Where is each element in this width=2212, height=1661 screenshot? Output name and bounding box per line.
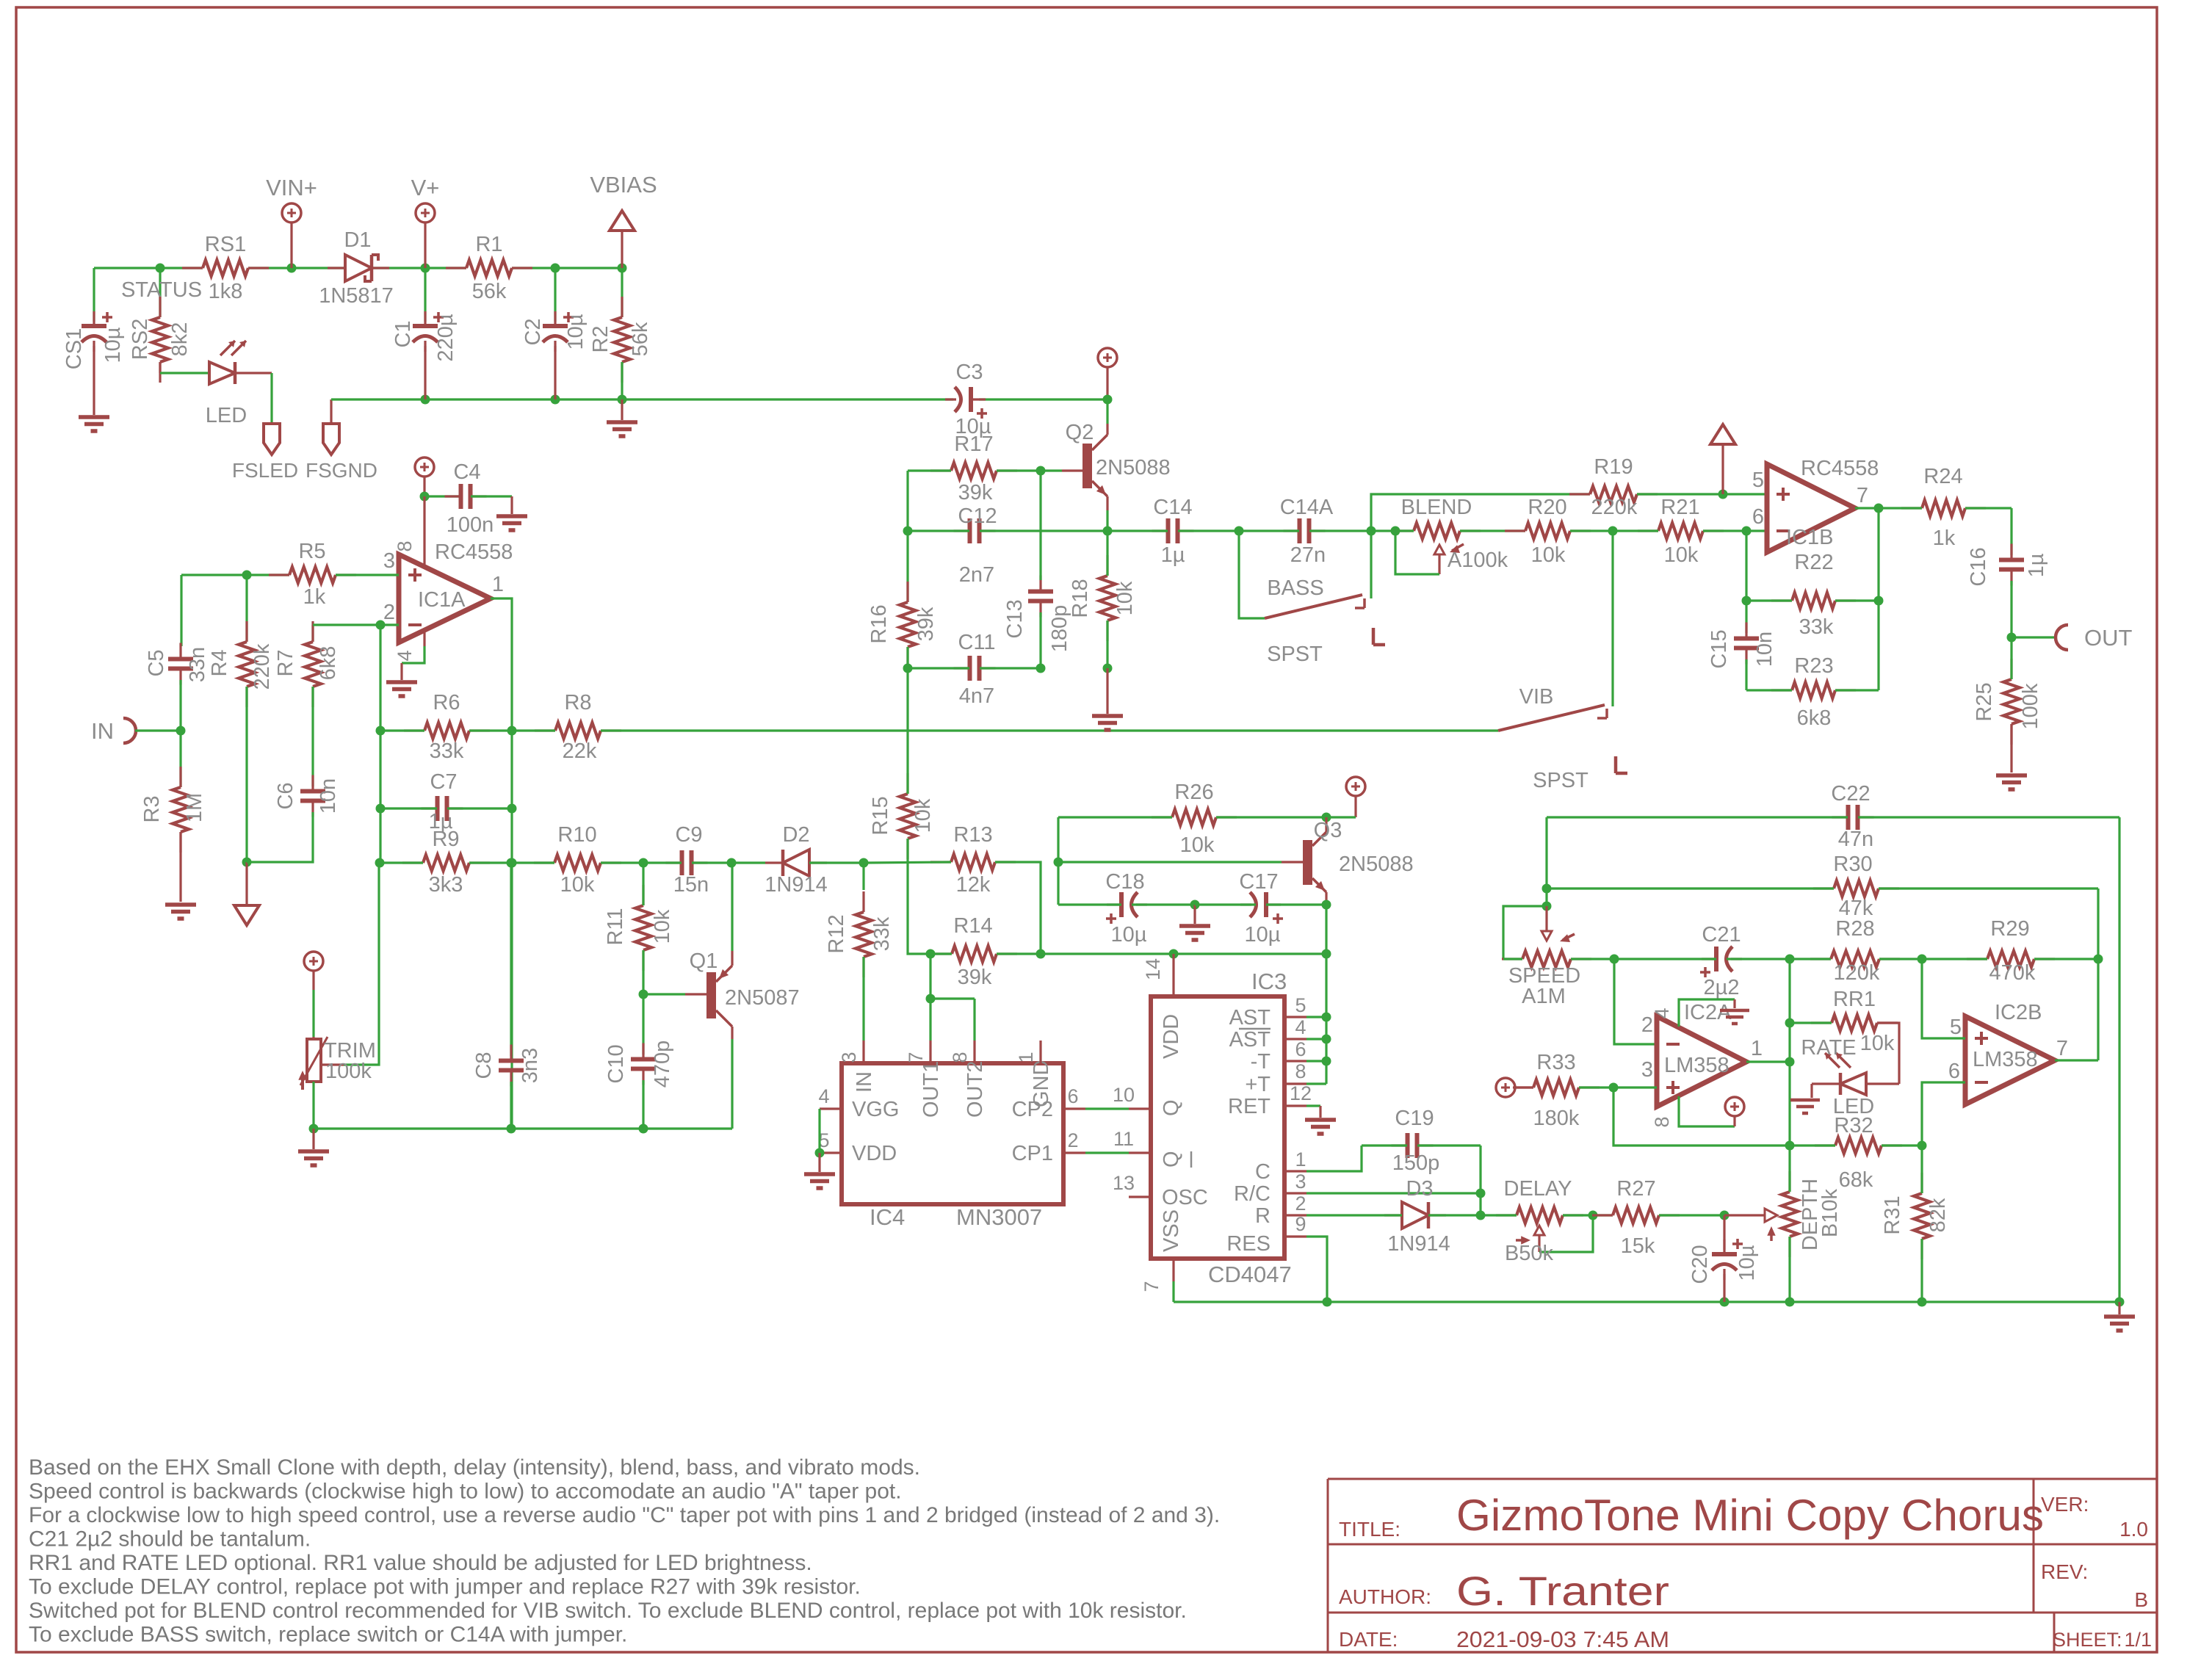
svg-text:6: 6	[1295, 1038, 1306, 1060]
svg-text:IN: IN	[853, 1071, 876, 1093]
svg-text:RES: RES	[1226, 1232, 1271, 1256]
svg-text:IC2A: IC2A	[1684, 1001, 1732, 1024]
svg-text:D3: D3	[1406, 1177, 1433, 1201]
svg-text:R30: R30	[1833, 853, 1872, 876]
pin FSLED	[235, 372, 272, 374]
svg-text:VDD: VDD	[852, 1142, 897, 1165]
svg-text:10n: 10n	[1753, 632, 1777, 667]
IC chip IC4 MN3007	[842, 1063, 1063, 1204]
op-amp IC1B	[1767, 464, 1855, 552]
svg-text:15n: 15n	[673, 873, 709, 897]
resistor R4	[245, 575, 247, 642]
wire IC2A noninv feedback	[1613, 1088, 1790, 1146]
svg-text:R2: R2	[589, 325, 612, 352]
pin stubs MN3007	[864, 1041, 1041, 1063]
capacitor C1	[424, 268, 426, 322]
svg-text:10µ: 10µ	[101, 327, 125, 363]
svg-text:IC1B: IC1B	[1786, 526, 1833, 549]
transistor Q2 2N5088	[1106, 399, 1108, 424]
svg-text:6: 6	[1067, 1085, 1078, 1107]
svg-text:R13: R13	[953, 823, 992, 847]
svg-text:STATUS: STATUS	[121, 278, 202, 302]
resistor R29	[1918, 955, 1927, 964]
svg-text:4: 4	[394, 650, 416, 661]
svg-text:R15: R15	[869, 796, 892, 835]
svg-text:G. Tranter: G. Tranter	[1456, 1568, 1669, 1614]
resistor R7	[311, 625, 314, 642]
svg-text:39k: 39k	[958, 966, 992, 989]
svg-text:SHEET:: SHEET:	[2053, 1629, 2122, 1651]
svg-text:3: 3	[1641, 1058, 1653, 1082]
wire VDD pin14 net	[1172, 954, 1174, 974]
resistor R2	[621, 268, 623, 317]
capacitor C16	[2010, 508, 2012, 555]
svg-text:C1: C1	[391, 320, 415, 347]
diode D3	[1402, 1202, 1428, 1228]
svg-text:180k: 180k	[1533, 1107, 1580, 1130]
svg-text:7: 7	[2056, 1037, 2068, 1060]
svg-text:4: 4	[1295, 1016, 1306, 1038]
svg-text:C21 2µ2 should be tantalum.: C21 2µ2 should be tantalum.	[29, 1527, 311, 1552]
svg-text:VIB: VIB	[1519, 685, 1554, 709]
svg-text:C11: C11	[958, 631, 995, 654]
wire IC1A output net	[491, 598, 512, 1129]
wire bias rail under Q1	[312, 1082, 314, 1129]
svg-text:3: 3	[838, 1052, 860, 1063]
svg-text:2µ2: 2µ2	[1704, 976, 1740, 999]
capacitor C5	[180, 575, 182, 646]
resistor R17	[951, 463, 997, 479]
wire CP2 to Q pin10	[1085, 1107, 1129, 1110]
svg-text:R28: R28	[1835, 917, 1874, 941]
pot DEPTH B10k wiper	[1724, 1214, 1765, 1216]
svg-text:FSGND: FSGND	[306, 459, 377, 482]
resistor R1	[466, 260, 512, 276]
svg-text:R9: R9	[432, 828, 459, 851]
ground below TRIM	[312, 1129, 314, 1149]
svg-text:AST: AST	[1229, 1006, 1271, 1029]
svg-text:C14A: C14A	[1280, 496, 1334, 519]
resistor R5	[181, 573, 289, 576]
svg-text:82k: 82k	[1926, 1198, 1950, 1232]
svg-text:C19: C19	[1395, 1107, 1434, 1130]
svg-text:D2: D2	[782, 823, 809, 847]
svg-text:LED: LED	[206, 404, 247, 427]
svg-text:R7: R7	[274, 649, 297, 676]
svg-text:R26: R26	[1174, 781, 1213, 804]
svg-text:Q3: Q3	[1314, 819, 1342, 842]
svg-text:2: 2	[1295, 1193, 1306, 1215]
svg-text:R17: R17	[954, 433, 993, 456]
svg-text:MN3007: MN3007	[956, 1204, 1042, 1230]
svg-text:R21: R21	[1660, 496, 1699, 519]
op-amp IC2B	[1965, 1016, 2055, 1104]
wire bottom power rail	[331, 398, 953, 400]
capacitor C8	[507, 858, 516, 868]
svg-text:R18: R18	[1069, 579, 1092, 618]
wire R16 column	[906, 471, 908, 531]
capacitor C13	[1036, 664, 1046, 673]
resistor R21	[1608, 526, 1618, 536]
ground at RET pin12	[1306, 1104, 1320, 1107]
supply VBIAS at IC1B	[1718, 490, 1728, 499]
svg-text:220µ: 220µ	[434, 314, 458, 361]
svg-text:150p: 150p	[1392, 1151, 1440, 1175]
svg-text:5: 5	[1295, 994, 1306, 1016]
svg-text:R/C: R/C	[1234, 1182, 1271, 1206]
wire IC2B pin5	[1922, 959, 1965, 1038]
svg-text:Q: Q	[1160, 1099, 1183, 1116]
resistor R30	[1834, 880, 1879, 897]
resistor R13	[951, 854, 995, 870]
resistor RS1	[203, 260, 248, 276]
ground at RATE LED	[1810, 1084, 1812, 1098]
resistor R31	[1914, 1193, 1930, 1239]
svg-text:1µ: 1µ	[2025, 553, 2048, 577]
supply V+	[416, 203, 435, 222]
capacitor C18	[1119, 892, 1124, 917]
ground below CS1	[79, 417, 109, 431]
svg-text:12: 12	[1290, 1082, 1312, 1104]
svg-text:To exclude DELAY control, repl: To exclude DELAY control, replace pot wi…	[29, 1575, 861, 1599]
svg-text:A1M: A1M	[1522, 985, 1566, 1008]
svg-text:IN: IN	[91, 718, 114, 744]
svg-text:Switched pot for BLEND control: Switched pot for BLEND control recommend…	[29, 1599, 1187, 1623]
svg-text:8: 8	[949, 1052, 971, 1063]
svg-text:C5: C5	[145, 649, 168, 676]
wire VSS pin7 to rail	[1172, 1281, 1174, 1302]
svg-text:8: 8	[394, 540, 416, 551]
svg-text:R11: R11	[604, 908, 627, 945]
switch BASS SPST	[1239, 531, 1265, 618]
resistor R20	[1525, 523, 1570, 539]
wire IC1A pin2 net	[313, 623, 399, 626]
resistor R12	[856, 912, 872, 957]
wire C22 right column	[2118, 817, 2120, 1302]
pin FSGND	[323, 424, 339, 455]
svg-text:DELAY: DELAY	[1504, 1177, 1572, 1201]
svg-text:LM358: LM358	[1973, 1048, 2038, 1071]
svg-text:C21: C21	[1702, 923, 1741, 947]
ground below C18 C17	[1190, 900, 1200, 910]
resistor R26	[1172, 809, 1216, 825]
svg-text:C4: C4	[453, 460, 480, 484]
svg-text:R3: R3	[140, 795, 164, 822]
svg-text:1: 1	[1295, 1148, 1306, 1170]
svg-text:2N5088: 2N5088	[1096, 456, 1171, 480]
wire IC2A inverting input	[1614, 959, 1657, 1044]
svg-text:6k8: 6k8	[1797, 706, 1832, 730]
resistor R3	[179, 731, 181, 787]
svg-text:1: 1	[1015, 1052, 1037, 1063]
resistor R24	[1922, 500, 1965, 516]
capacitor C14	[1168, 518, 1178, 543]
wire IC2B output	[2055, 1059, 2098, 1061]
svg-text:7: 7	[905, 1052, 927, 1063]
svg-text:B10k: B10k	[1818, 1188, 1842, 1237]
svg-text:B: B	[2134, 1588, 2148, 1611]
pin stubs CD4047	[1172, 974, 1174, 996]
svg-text:33k: 33k	[870, 916, 894, 951]
wire MN3007 OUT pins net	[926, 949, 936, 959]
svg-text:RS1: RS1	[205, 233, 246, 256]
svg-text:Speed control is backwards (cl: Speed control is backwards (clockwise hi…	[29, 1480, 902, 1504]
resistor RR1	[1832, 1015, 1877, 1031]
svg-text:4n7: 4n7	[959, 684, 994, 708]
ground below R25	[1996, 775, 2027, 789]
wire pin6 column	[1742, 526, 1752, 536]
wire MN3007 VGG VDD ground	[818, 1109, 820, 1153]
svg-text:12k: 12k	[956, 873, 991, 897]
diode D2	[727, 858, 737, 868]
svg-text:470k: 470k	[1989, 961, 2036, 985]
ground below R2	[621, 399, 623, 420]
pot BLEND A100k	[1391, 526, 1400, 536]
wire R14 line to spine	[1322, 949, 1331, 959]
svg-text:2N5087: 2N5087	[725, 986, 800, 1010]
svg-text:AST: AST	[1229, 1028, 1271, 1052]
svg-text:8: 8	[1651, 1116, 1673, 1127]
svg-text:R12: R12	[825, 914, 848, 953]
wire R/C pin3 net	[1479, 1146, 1481, 1215]
resistor RS2	[159, 268, 161, 317]
resistor R22	[1742, 596, 1752, 606]
svg-text:1N914: 1N914	[765, 873, 827, 897]
svg-text:R16: R16	[867, 604, 891, 643]
svg-text:1.0: 1.0	[2119, 1518, 2148, 1541]
svg-text:R20: R20	[1528, 496, 1566, 519]
svg-text:IC3: IC3	[1251, 969, 1287, 994]
ground at rail right end	[2115, 1298, 2125, 1307]
svg-text:RET: RET	[1228, 1095, 1271, 1118]
svg-text:1M: 1M	[183, 793, 206, 822]
svg-text:33k: 33k	[1799, 615, 1834, 639]
svg-text:C2: C2	[521, 318, 545, 345]
svg-text:SPST: SPST	[1533, 769, 1588, 792]
svg-text:REV:: REV:	[2041, 1560, 2088, 1583]
svg-text:OUT: OUT	[2084, 625, 2133, 651]
svg-text:R: R	[1255, 1204, 1271, 1228]
capacitor C15	[1734, 639, 1759, 648]
svg-text:C14: C14	[1153, 496, 1192, 519]
svg-text:IC2B: IC2B	[1995, 1001, 2042, 1024]
svg-text:Q1: Q1	[690, 949, 718, 973]
capacitor C20	[1720, 1211, 1730, 1220]
svg-text:LM358: LM358	[1664, 1054, 1730, 1077]
resistor R28	[1785, 955, 1795, 964]
wire SPEED node column	[1545, 817, 1547, 906]
svg-text:1: 1	[492, 573, 504, 596]
svg-text:Q: Q	[1160, 1151, 1183, 1168]
svg-text:RC4558: RC4558	[1801, 457, 1879, 480]
svg-text:R31: R31	[1881, 1195, 1904, 1234]
capacitor CS1	[93, 268, 95, 322]
svg-text:R27: R27	[1616, 1177, 1655, 1201]
svg-text:R6: R6	[433, 691, 460, 714]
svg-text:10µ: 10µ	[1111, 923, 1147, 947]
svg-text:BASS: BASS	[1267, 576, 1323, 600]
resistor R6	[376, 726, 386, 736]
svg-text:56k: 56k	[629, 322, 652, 356]
LED STATUS	[160, 372, 209, 374]
capacitor C14A	[1235, 526, 1244, 536]
op-amp IC1A	[423, 496, 425, 567]
ground below R18	[1103, 664, 1113, 673]
svg-text:47n: 47n	[1838, 828, 1873, 851]
IC chip IC3 CD4047	[1151, 996, 1284, 1259]
svg-text:2: 2	[1067, 1129, 1078, 1151]
wire R32 DEPTH node	[1785, 1141, 1795, 1151]
svg-text:C12: C12	[958, 504, 997, 528]
diode D1	[345, 255, 372, 281]
capacitor C10	[642, 994, 644, 1054]
svg-text:3n3: 3n3	[518, 1048, 542, 1083]
svg-text:10n: 10n	[317, 778, 340, 814]
svg-text:VBIAS: VBIAS	[590, 172, 657, 198]
wire C pin1 net	[1306, 1146, 1362, 1171]
pot SPEED A1M	[1503, 906, 1547, 959]
svg-text:C8: C8	[472, 1052, 496, 1079]
svg-text:CP2: CP2	[1012, 1098, 1053, 1121]
svg-text:C10: C10	[604, 1044, 628, 1083]
svg-text:7: 7	[1141, 1281, 1163, 1292]
supply at IC2A pin8	[1679, 1096, 1735, 1126]
svg-text:10µ: 10µ	[1735, 1245, 1759, 1281]
svg-text:RR1 and RATE LED optional. RR1: RR1 and RATE LED optional. RR1 value sho…	[29, 1551, 812, 1575]
resistor R27	[1613, 1207, 1659, 1223]
svg-text:R10: R10	[557, 823, 596, 847]
svg-text:R1: R1	[475, 233, 502, 256]
capacitor C19	[1408, 1133, 1417, 1158]
wire IC2B pin6	[1922, 1082, 1965, 1146]
svg-text:14: 14	[1142, 958, 1164, 980]
svg-text:6k8: 6k8	[317, 646, 340, 681]
svg-text:VIN+: VIN+	[266, 175, 317, 200]
capacitor C12	[903, 526, 913, 536]
svg-text:10k: 10k	[1180, 833, 1215, 857]
svg-text:CD4047: CD4047	[1208, 1262, 1292, 1287]
resistor R32	[1835, 1137, 1882, 1154]
svg-text:220k: 220k	[250, 643, 274, 690]
capacitor C4	[424, 495, 460, 497]
svg-text:AUTHOR:: AUTHOR:	[1339, 1585, 1431, 1608]
svg-text:VER:: VER:	[2041, 1493, 2089, 1516]
svg-text:33n: 33n	[186, 647, 209, 682]
svg-text:120k: 120k	[1834, 961, 1880, 985]
resistor R16	[906, 531, 908, 602]
svg-text:10k: 10k	[1113, 581, 1137, 615]
svg-text:7: 7	[1857, 484, 1868, 507]
svg-text:10k: 10k	[560, 873, 595, 897]
svg-text:1µ: 1µ	[1161, 543, 1185, 567]
capacitor C22	[1848, 805, 1858, 830]
svg-text:2N5088: 2N5088	[1339, 853, 1414, 876]
svg-text:15k: 15k	[1621, 1234, 1655, 1258]
node junctions top rail	[156, 264, 165, 273]
svg-text:10k: 10k	[651, 909, 674, 944]
trimpot TRIM	[304, 952, 323, 971]
wire Q3 emitter column	[1322, 900, 1331, 910]
resistor R25	[2003, 679, 2020, 724]
svg-text:Q2: Q2	[1066, 421, 1094, 444]
svg-text:3: 3	[383, 549, 395, 573]
svg-text:VGG: VGG	[852, 1098, 899, 1121]
svg-text:5: 5	[1752, 468, 1764, 492]
wire IC1B output	[1855, 507, 1879, 509]
svg-text:39k: 39k	[958, 481, 993, 504]
svg-text:R19: R19	[1594, 455, 1633, 479]
svg-text:8: 8	[1295, 1060, 1306, 1082]
svg-text:VSS: VSS	[1160, 1209, 1183, 1252]
svg-text:68k: 68k	[1839, 1168, 1873, 1192]
wire CP1 to Q# pin11	[1085, 1151, 1129, 1154]
connector IN	[123, 718, 136, 743]
svg-text:C7: C7	[430, 770, 457, 794]
svg-text:33k: 33k	[430, 739, 464, 763]
svg-text:10µ: 10µ	[564, 314, 588, 350]
svg-text:4: 4	[818, 1085, 829, 1107]
supply VBIAS	[610, 211, 635, 231]
svg-text:10: 10	[1113, 1084, 1135, 1106]
svg-text:R32: R32	[1834, 1114, 1873, 1137]
svg-text:56k: 56k	[472, 280, 507, 303]
svg-text:470p: 470p	[651, 1041, 674, 1088]
svg-text:C9: C9	[675, 823, 702, 847]
svg-text:For a clockwise low to high sp: For a clockwise low to high speed contro…	[29, 1503, 1220, 1527]
resistor R9	[375, 858, 385, 868]
svg-text:1: 1	[1751, 1037, 1763, 1060]
supply V+ for Q2	[1098, 348, 1117, 367]
svg-text:C18: C18	[1105, 870, 1144, 894]
capacitor C21	[1610, 955, 1619, 964]
op-amp IC2A	[1657, 1016, 1746, 1107]
svg-text:R8: R8	[564, 691, 591, 714]
svg-text:10k: 10k	[1664, 543, 1699, 567]
svg-text:C20: C20	[1688, 1245, 1712, 1284]
svg-text:C3: C3	[955, 361, 983, 384]
capacitor C17	[1264, 892, 1268, 917]
svg-text:C: C	[1255, 1160, 1271, 1184]
svg-text:RATE: RATE	[1801, 1036, 1856, 1060]
capacitor C2	[554, 268, 556, 322]
pot DELAY B50k	[1476, 1211, 1486, 1220]
ground below IC1A pin4	[423, 630, 425, 646]
supply VBIAS down below R4	[242, 858, 252, 867]
svg-text:RS2: RS2	[129, 319, 152, 360]
svg-text:11: 11	[1113, 1128, 1134, 1150]
svg-text:CP1: CP1	[1012, 1142, 1053, 1165]
resistor R18	[1103, 526, 1113, 536]
resistor R23	[1792, 682, 1835, 698]
svg-text:Based on the EHX Small Clone w: Based on the EHX Small Clone with depth,…	[29, 1455, 920, 1480]
capacitor C6	[311, 687, 314, 786]
svg-text:R4: R4	[208, 649, 231, 676]
svg-text:1k: 1k	[1933, 526, 1956, 550]
svg-text:2021-09-03 7:45 AM: 2021-09-03 7:45 AM	[1456, 1626, 1669, 1652]
svg-text:R25: R25	[1973, 682, 1996, 721]
resistor R33	[1496, 1078, 1515, 1097]
wire top power rail	[94, 267, 203, 269]
svg-text:D1: D1	[344, 228, 371, 252]
svg-text:FSLED: FSLED	[232, 459, 298, 482]
svg-text:2: 2	[383, 601, 395, 624]
svg-text:B50k: B50k	[1505, 1242, 1554, 1265]
svg-text:3k3: 3k3	[429, 873, 463, 897]
ground below R3	[165, 905, 196, 919]
capacitor C11	[903, 664, 913, 673]
svg-text:To exclude BASS switch, replac: To exclude BASS switch, replace switch o…	[29, 1623, 627, 1647]
transistor Q3 2N5088	[1303, 840, 1312, 885]
